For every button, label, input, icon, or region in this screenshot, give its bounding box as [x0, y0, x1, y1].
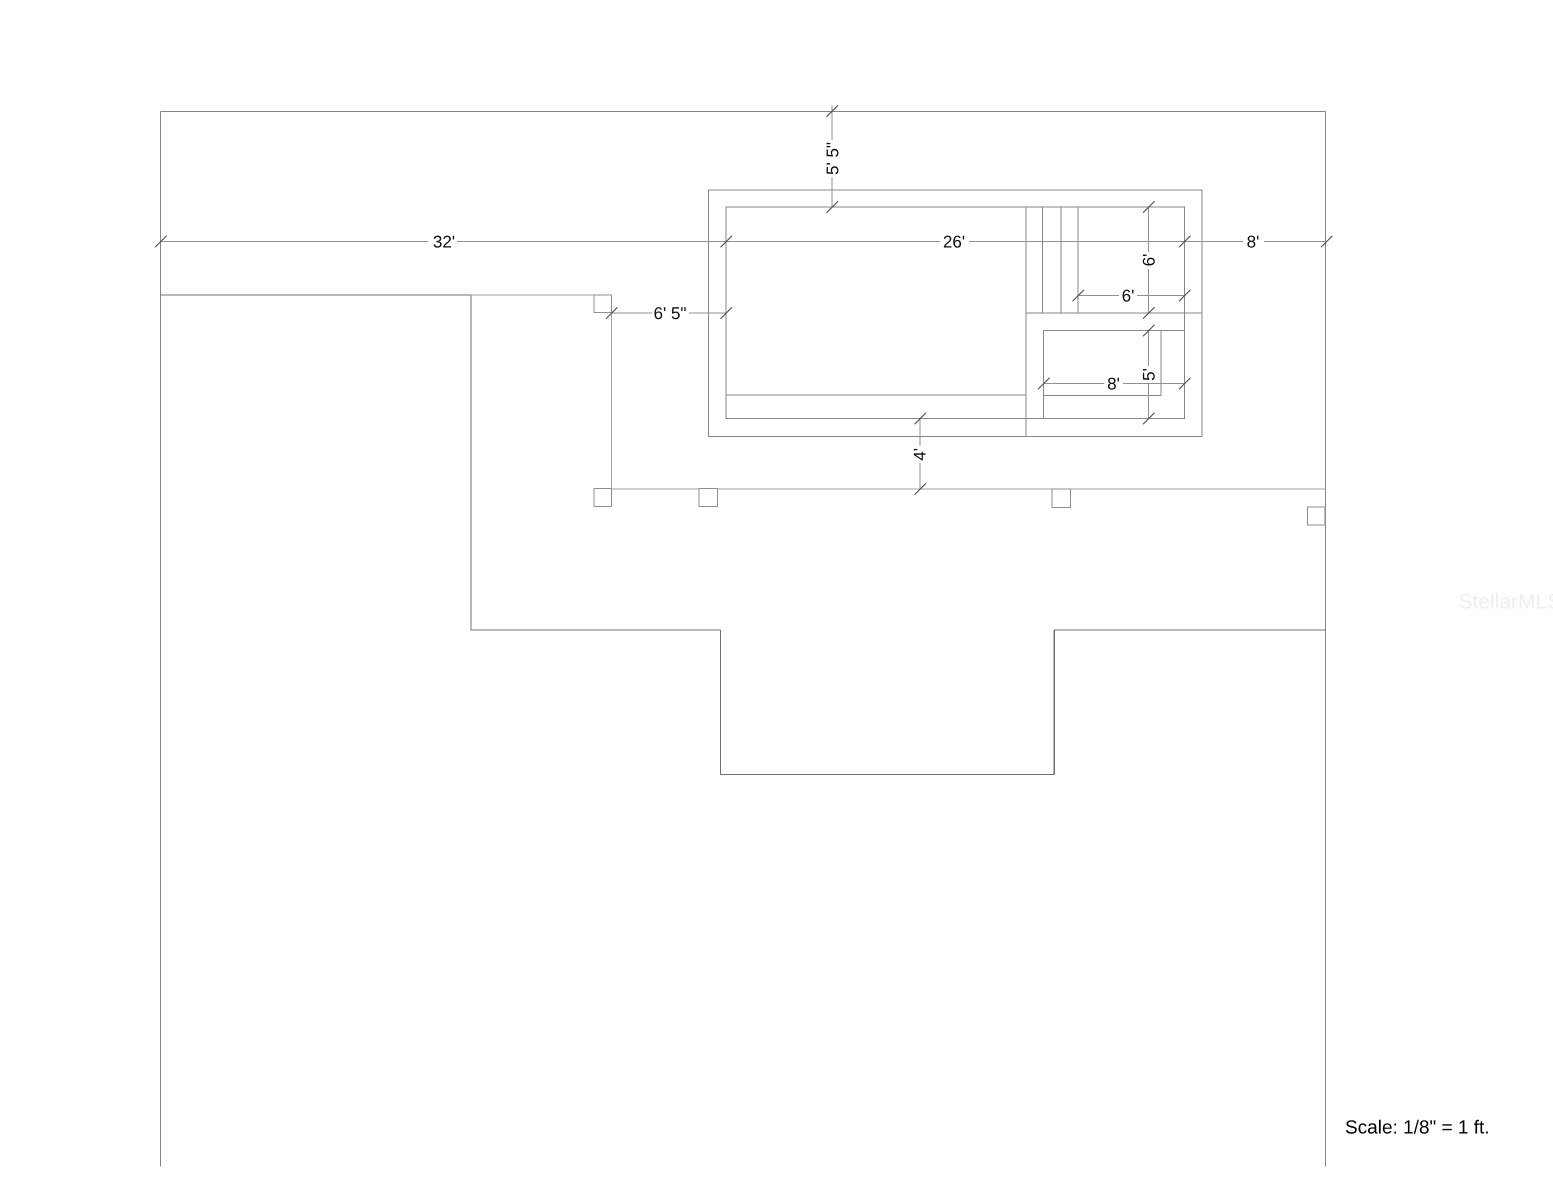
tick 32ft left — [155, 236, 167, 248]
dim line 6ft vertical — [1148, 207, 1150, 313]
tick 6ft5 left — [606, 307, 618, 319]
mid horizontal wall — [1026, 312, 1202, 314]
tick 8spa right — [1179, 378, 1191, 390]
tick 6ft5 right — [721, 307, 733, 319]
tick 5ft5 bottom — [827, 201, 839, 213]
post P5 right edge — [1308, 507, 1326, 525]
label 8ft — [1247, 236, 1258, 248]
tick 26ft/8ft — [1179, 236, 1191, 248]
dim line 5ft spa vertical — [1148, 331, 1150, 419]
stair line 1 — [1042, 207, 1044, 313]
tick 32ft/26ft — [721, 236, 733, 248]
deck wall top-left horizontal — [161, 294, 472, 296]
dim line 6ft horizontal — [1078, 295, 1185, 297]
label 6ft horizontal — [1123, 290, 1134, 302]
deck step bottom horizontal — [720, 774, 1055, 776]
tick 6fth right — [1179, 290, 1191, 302]
label 4ft rotated — [914, 449, 926, 460]
label 32ft — [434, 236, 455, 248]
dim line main horizontal 32-26-8 — [161, 241, 1326, 243]
dim line 8ft spa horizontal — [1044, 383, 1185, 385]
tick 6ftv top — [1143, 201, 1155, 213]
halo 26ft label — [940, 233, 969, 250]
deck step left vertical — [719, 630, 721, 775]
screen wall top segment — [471, 294, 594, 296]
spa basin bottom — [1044, 394, 1162, 396]
spa left wall — [1043, 331, 1045, 419]
dim line 6ft5 horizontal — [612, 312, 727, 314]
dim line 5ft5 vertical — [831, 106, 833, 208]
halo 6ft horizontal label — [1119, 287, 1137, 304]
halo 4ft label — [911, 446, 929, 463]
post P3 — [699, 489, 718, 507]
tick 4ft bottom — [915, 483, 927, 495]
label 8ft spa — [1108, 378, 1119, 390]
room left wall — [1077, 207, 1079, 313]
property boundary right edge — [1325, 112, 1327, 1167]
deck step upper horizontal left — [471, 629, 721, 631]
halo 5ft spa label — [1140, 366, 1158, 383]
tick 8spa left — [1038, 378, 1050, 390]
post P1 top — [594, 295, 612, 313]
screen wall bottom horizontal — [594, 488, 1326, 490]
halo 5ft5 label — [823, 140, 841, 177]
label 6ft vertical rotated — [1143, 255, 1155, 266]
tick 4ft top — [915, 413, 927, 425]
halo 6ft5 label — [652, 304, 689, 321]
watermark StellarMLS — [1460, 593, 1553, 608]
pool bench line — [726, 394, 1026, 396]
label 5ft spa rotated — [1143, 369, 1155, 380]
halo 8ft label — [1243, 233, 1264, 250]
post P2 — [594, 489, 612, 507]
pool cage inner rect — [726, 207, 1185, 419]
pool right wall vertical — [1025, 207, 1027, 437]
property boundary left edge — [160, 112, 162, 1167]
deck step right vertical — [1053, 630, 1055, 775]
label 6ft5 — [654, 307, 685, 319]
tick 8ft right — [1321, 236, 1333, 248]
tick 5spa bottom — [1143, 413, 1155, 425]
tick 5spa top — [1143, 325, 1155, 337]
pool cage outer rect — [709, 190, 1203, 437]
halo 32ft label — [428, 233, 457, 250]
tick 6fth left — [1073, 290, 1085, 302]
post P4 — [1052, 489, 1071, 508]
deck wall left vertical — [470, 295, 472, 631]
scale note — [1346, 1120, 1488, 1134]
property boundary top edge — [161, 111, 1326, 113]
screen wall left vertical — [611, 313, 613, 489]
label 5ft5 rotated — [827, 143, 839, 175]
halo 8ft spa label — [1104, 375, 1123, 392]
dim line 4ft vertical — [919, 419, 921, 490]
tick 6ftv bottom — [1143, 307, 1155, 319]
label 26ft — [944, 236, 964, 248]
spa top wall — [1044, 330, 1185, 332]
spa basin right — [1160, 331, 1162, 396]
stair line 2 — [1060, 207, 1062, 313]
tick 5ft5 top — [827, 105, 839, 117]
deck step upper horizontal right — [1054, 629, 1326, 631]
halo 6ft vertical label — [1140, 252, 1158, 269]
